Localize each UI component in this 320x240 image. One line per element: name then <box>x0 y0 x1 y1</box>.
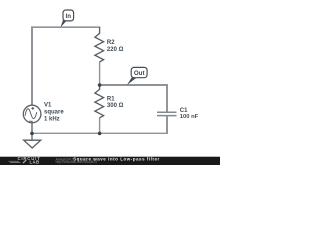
flag In <box>60 10 73 27</box>
voltage source V1 <box>23 105 41 123</box>
wire left column upper <box>31 26 33 105</box>
svg-text:http://circuitlab.com/c/6uy823: http://circuitlab.com/c/6uy823 <box>56 160 98 164</box>
svg-text:R2: R2 <box>107 40 115 46</box>
resistor R1 <box>95 85 104 118</box>
svg-text:LAB: LAB <box>30 159 40 164</box>
flag Out <box>127 67 147 85</box>
junction dot node Out <box>98 83 102 87</box>
ground <box>24 133 41 148</box>
wire left column lower <box>31 123 33 134</box>
svg-text:100 nF: 100 nF <box>180 114 199 120</box>
minus sign <box>29 120 33 122</box>
svg-text:C1: C1 <box>180 108 188 114</box>
svg-text:square: square <box>44 110 64 116</box>
capacitor C1 <box>157 112 177 115</box>
junction dot R1 bottom <box>98 132 102 136</box>
wire C1 bottom lead <box>166 116 168 134</box>
svg-text:In: In <box>66 13 72 20</box>
CircuitLab logo wordmark <box>9 156 41 164</box>
svg-text:1 kHz: 1 kHz <box>44 116 60 122</box>
wire R2 bottom to node Out <box>99 62 101 86</box>
svg-text:220 Ω: 220 Ω <box>107 47 124 53</box>
wire top node In <box>31 26 100 28</box>
footer bar <box>0 157 220 165</box>
svg-text:R1: R1 <box>107 96 115 102</box>
svg-text:300 Ω: 300 Ω <box>107 103 124 109</box>
wire C1 top lead <box>166 84 168 112</box>
wire R1 bottom lead <box>99 118 101 134</box>
waveform glyph <box>25 109 37 119</box>
resistor R2 <box>95 27 104 62</box>
svg-text:Out: Out <box>134 70 145 77</box>
wire bottom ground net <box>31 132 168 134</box>
wire node Out horizontal <box>100 84 168 86</box>
junction dot V1 ground <box>30 132 34 136</box>
svg-text:V1: V1 <box>44 103 52 109</box>
plus sign <box>31 107 34 110</box>
